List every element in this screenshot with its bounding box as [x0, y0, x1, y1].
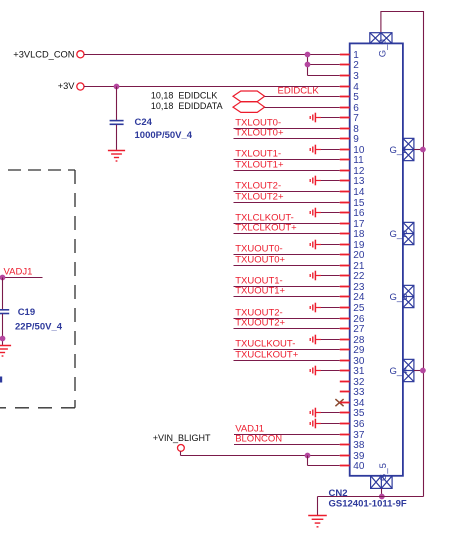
- svg-text:22P/50V_4: 22P/50V_4: [15, 322, 63, 333]
- capacitor C19 plates: [0, 310, 9, 314]
- ground below C19: [0, 346, 11, 357]
- wire +3V to pin 4: [84, 86, 340, 88]
- wire TXUOUT1- to pin 23: [234, 286, 340, 288]
- svg-text:G_4: G_4: [390, 366, 408, 377]
- svg-text:TXLOUT2+: TXLOUT2+: [235, 192, 284, 203]
- wire pin 28 to ground: [315, 339, 339, 341]
- wire pin 25 to ground: [315, 307, 339, 309]
- svg-text:22: 22: [353, 271, 365, 282]
- svg-text:+3VLCD_CON: +3VLCD_CON: [13, 49, 74, 59]
- wire TXLOUT1+ to pin 12: [234, 170, 340, 172]
- svg-text:31: 31: [353, 366, 365, 377]
- wire pin 36 to ground: [315, 423, 339, 425]
- svg-text:BLONCON: BLONCON: [235, 434, 282, 445]
- svg-text:G_2: G_2: [390, 229, 408, 240]
- svg-text:1000P/50V_4: 1000P/50V_4: [135, 130, 193, 141]
- ground symbol at pin 31: [310, 366, 321, 376]
- svg-text:20: 20: [353, 250, 365, 261]
- wire pin 35 to ground: [315, 412, 339, 414]
- pin numbers 1-40: [353, 50, 365, 472]
- svg-text:40: 40: [353, 461, 365, 472]
- wire pin 31 to ground: [315, 370, 339, 372]
- wire TXLOUT2+ to pin 15: [234, 202, 340, 204]
- junction pin 1: [305, 52, 311, 58]
- svg-text:C24: C24: [135, 117, 153, 128]
- wire pin 7 to ground: [315, 117, 339, 119]
- mounting lug G_1: [403, 138, 414, 160]
- svg-text:G_0: G_0: [378, 39, 389, 57]
- svg-text:7: 7: [353, 113, 359, 124]
- junction lug G_4: [420, 368, 426, 374]
- svg-text:GS12401-1011-9F: GS12401-1011-9F: [329, 498, 407, 509]
- no-connect X pin 34: [335, 399, 343, 406]
- svg-text:18: 18: [353, 229, 365, 240]
- dashed block boundary top edge: [8, 169, 75, 171]
- wire lug G_5 stub: [381, 488, 383, 496]
- clipped text fragment at left edge: [0, 377, 2, 383]
- svg-text:TXLOUT1-: TXLOUT1-: [235, 149, 281, 160]
- svg-text:24: 24: [353, 292, 365, 303]
- wire BLONCON to pin 38: [234, 444, 340, 446]
- dashed block boundary right edge: [74, 170, 76, 408]
- svg-text:38: 38: [353, 440, 365, 451]
- svg-text:5: 5: [353, 92, 359, 103]
- power port +VIN_BLIGHT pin circle: [178, 445, 185, 452]
- junction bottom rail: [379, 494, 385, 500]
- svg-text:TXUOUT0-: TXUOUT0-: [235, 244, 283, 255]
- wire TXLOUT0+ to pin 9: [234, 138, 340, 140]
- wire to pin 2: [308, 64, 340, 66]
- wire VADJ1 left stub: [0, 277, 43, 279]
- svg-text:TXUOUT0+: TXUOUT0+: [235, 255, 285, 266]
- svg-text:TXUCLKOUT+: TXUCLKOUT+: [235, 350, 299, 361]
- svg-text:29: 29: [353, 345, 365, 356]
- svg-text:2: 2: [353, 60, 359, 71]
- wire TXLCLKOUT- to pin 17: [234, 223, 340, 225]
- wire EDIDCLK to pin 5: [265, 96, 340, 98]
- wire TXLOUT1- to pin 11: [234, 159, 340, 161]
- svg-text:TXLCLKOUT+: TXLCLKOUT+: [235, 223, 297, 234]
- wire +VIN_BLIGHT to pin 39: [181, 455, 340, 457]
- svg-text:10,18 EDIDDATA: 10,18 EDIDDATA: [151, 101, 223, 111]
- svg-text:G_1: G_1: [390, 145, 408, 156]
- mounting lug G (top): [370, 33, 392, 44]
- connector CN2 body: [350, 43, 403, 475]
- ground symbol at pin 16: [310, 208, 321, 218]
- ripper symbol EDIDDATA: [233, 102, 265, 113]
- dashed block boundary bottom edge: [0, 407, 75, 409]
- wire lug G_1 to right rail: [414, 149, 424, 151]
- ground symbol at pin 7: [310, 113, 321, 123]
- mounting lug G_5 (bottom): [371, 476, 393, 489]
- mounting lug G_3: [403, 285, 414, 307]
- svg-text:11: 11: [353, 155, 364, 166]
- ground symbol at pin 19: [310, 240, 321, 250]
- svg-text:14: 14: [353, 187, 365, 198]
- svg-text:TXUOUT2+: TXUOUT2+: [235, 318, 285, 329]
- capacitor C24 lead from +3V: [116, 87, 118, 121]
- wire vertical pin 39 to 40: [307, 456, 309, 466]
- wire lug G_4 to right rail: [414, 370, 424, 372]
- ground symbol at pin 13: [310, 176, 321, 186]
- junction pin 39: [305, 453, 311, 459]
- wire pin 22 to ground: [315, 275, 339, 277]
- svg-text:3: 3: [353, 71, 359, 82]
- junction VADJ1 left: [0, 275, 5, 281]
- wire pin 10 to ground: [315, 149, 339, 151]
- connector pin stubs 1-40: [340, 55, 350, 466]
- svg-text:VADJ1: VADJ1: [4, 267, 33, 278]
- capacitor C19 lead bottom: [2, 314, 4, 345]
- wire +3VLCD_CON to pin 1: [84, 54, 340, 56]
- ground below C24: [108, 151, 125, 162]
- junction C19 bottom: [0, 336, 5, 342]
- wire vertical pins 1-3: [307, 55, 309, 76]
- wire TXUCLKOUT+ to pin 30: [234, 360, 340, 362]
- junction lug G_1: [420, 147, 426, 153]
- svg-text:+3V: +3V: [58, 81, 76, 91]
- svg-text:TXLOUT2-: TXLOUT2-: [235, 181, 281, 192]
- svg-text:27: 27: [353, 324, 365, 335]
- svg-text:25: 25: [353, 303, 365, 314]
- svg-text:EDIDCLK: EDIDCLK: [278, 86, 320, 97]
- wire bottom rail to ground: [317, 497, 319, 516]
- wire VADJ1 to pin 37: [234, 434, 340, 436]
- wire TXUCLKOUT- to pin 29: [234, 349, 340, 351]
- wire TXUOUT0+ to pin 21: [234, 265, 340, 267]
- capacitor C19 lead top: [2, 278, 4, 310]
- wire EDIDDATA to pin 6: [265, 107, 340, 109]
- svg-text:C19: C19: [18, 307, 35, 318]
- svg-text:TXLOUT0+: TXLOUT0+: [235, 128, 284, 139]
- wire TXLOUT2- to pin 14: [234, 191, 340, 193]
- wire pin 16 to ground: [315, 212, 339, 214]
- wire to pin 3: [308, 75, 340, 77]
- ground symbol at pin 25: [310, 303, 321, 313]
- svg-text:TXLOUT1+: TXLOUT1+: [235, 160, 284, 171]
- svg-text:35: 35: [353, 408, 365, 419]
- svg-text:33: 33: [353, 387, 365, 398]
- junction pin 2: [305, 62, 311, 68]
- capacitor C24 lead to ground: [116, 125, 118, 150]
- svg-text:TXUOUT1+: TXUOUT1+: [235, 286, 285, 297]
- svg-text:13: 13: [353, 176, 365, 187]
- wire pin 19 to ground: [315, 244, 339, 246]
- wire TXUOUT2- to pin 26: [234, 318, 340, 320]
- wire TXLOUT0- to pin 8: [234, 128, 340, 130]
- wire TXUOUT2+ to pin 27: [234, 328, 340, 330]
- mounting lug G_2: [403, 222, 414, 244]
- svg-text:16: 16: [353, 208, 365, 219]
- svg-text:10,18 EDIDCLK: 10,18 EDIDCLK: [151, 90, 218, 100]
- power port +3V pin circle: [77, 83, 84, 90]
- capacitor C24 plates: [110, 121, 124, 125]
- svg-text:G_3: G_3: [390, 292, 408, 303]
- wire +VIN_BLIGHT down: [180, 451, 182, 455]
- mounting lug G_4: [403, 359, 414, 381]
- wire top lug to right rail: [381, 12, 424, 497]
- ground at bottom rail: [308, 516, 327, 527]
- wire bottom rail: [318, 496, 424, 498]
- ground symbol at pin 35: [310, 408, 321, 418]
- junction +3V / C24: [114, 84, 120, 90]
- wire TXUOUT0- to pin 20: [234, 254, 340, 256]
- wire pin 13 to ground: [315, 180, 339, 182]
- ripper symbol EDIDCLK: [233, 91, 265, 102]
- ground symbol at pin 36: [310, 419, 321, 429]
- ground symbol at pin 28: [310, 335, 321, 345]
- svg-text:+VIN_BLIGHT: +VIN_BLIGHT: [153, 433, 211, 443]
- ground symbol at pin 22: [310, 271, 321, 281]
- wire to pin 40: [308, 465, 340, 467]
- svg-text:36: 36: [353, 419, 365, 430]
- power port +3VLCD_CON pin circle: [77, 51, 84, 58]
- svg-text:9: 9: [353, 134, 359, 145]
- ground symbol at pin 10: [310, 145, 321, 155]
- wire TXUOUT1+ to pin 24: [234, 296, 340, 298]
- svg-text:TXUCLKOUT-: TXUCLKOUT-: [235, 339, 295, 350]
- wire TXLCLKOUT+ to pin 18: [234, 233, 340, 235]
